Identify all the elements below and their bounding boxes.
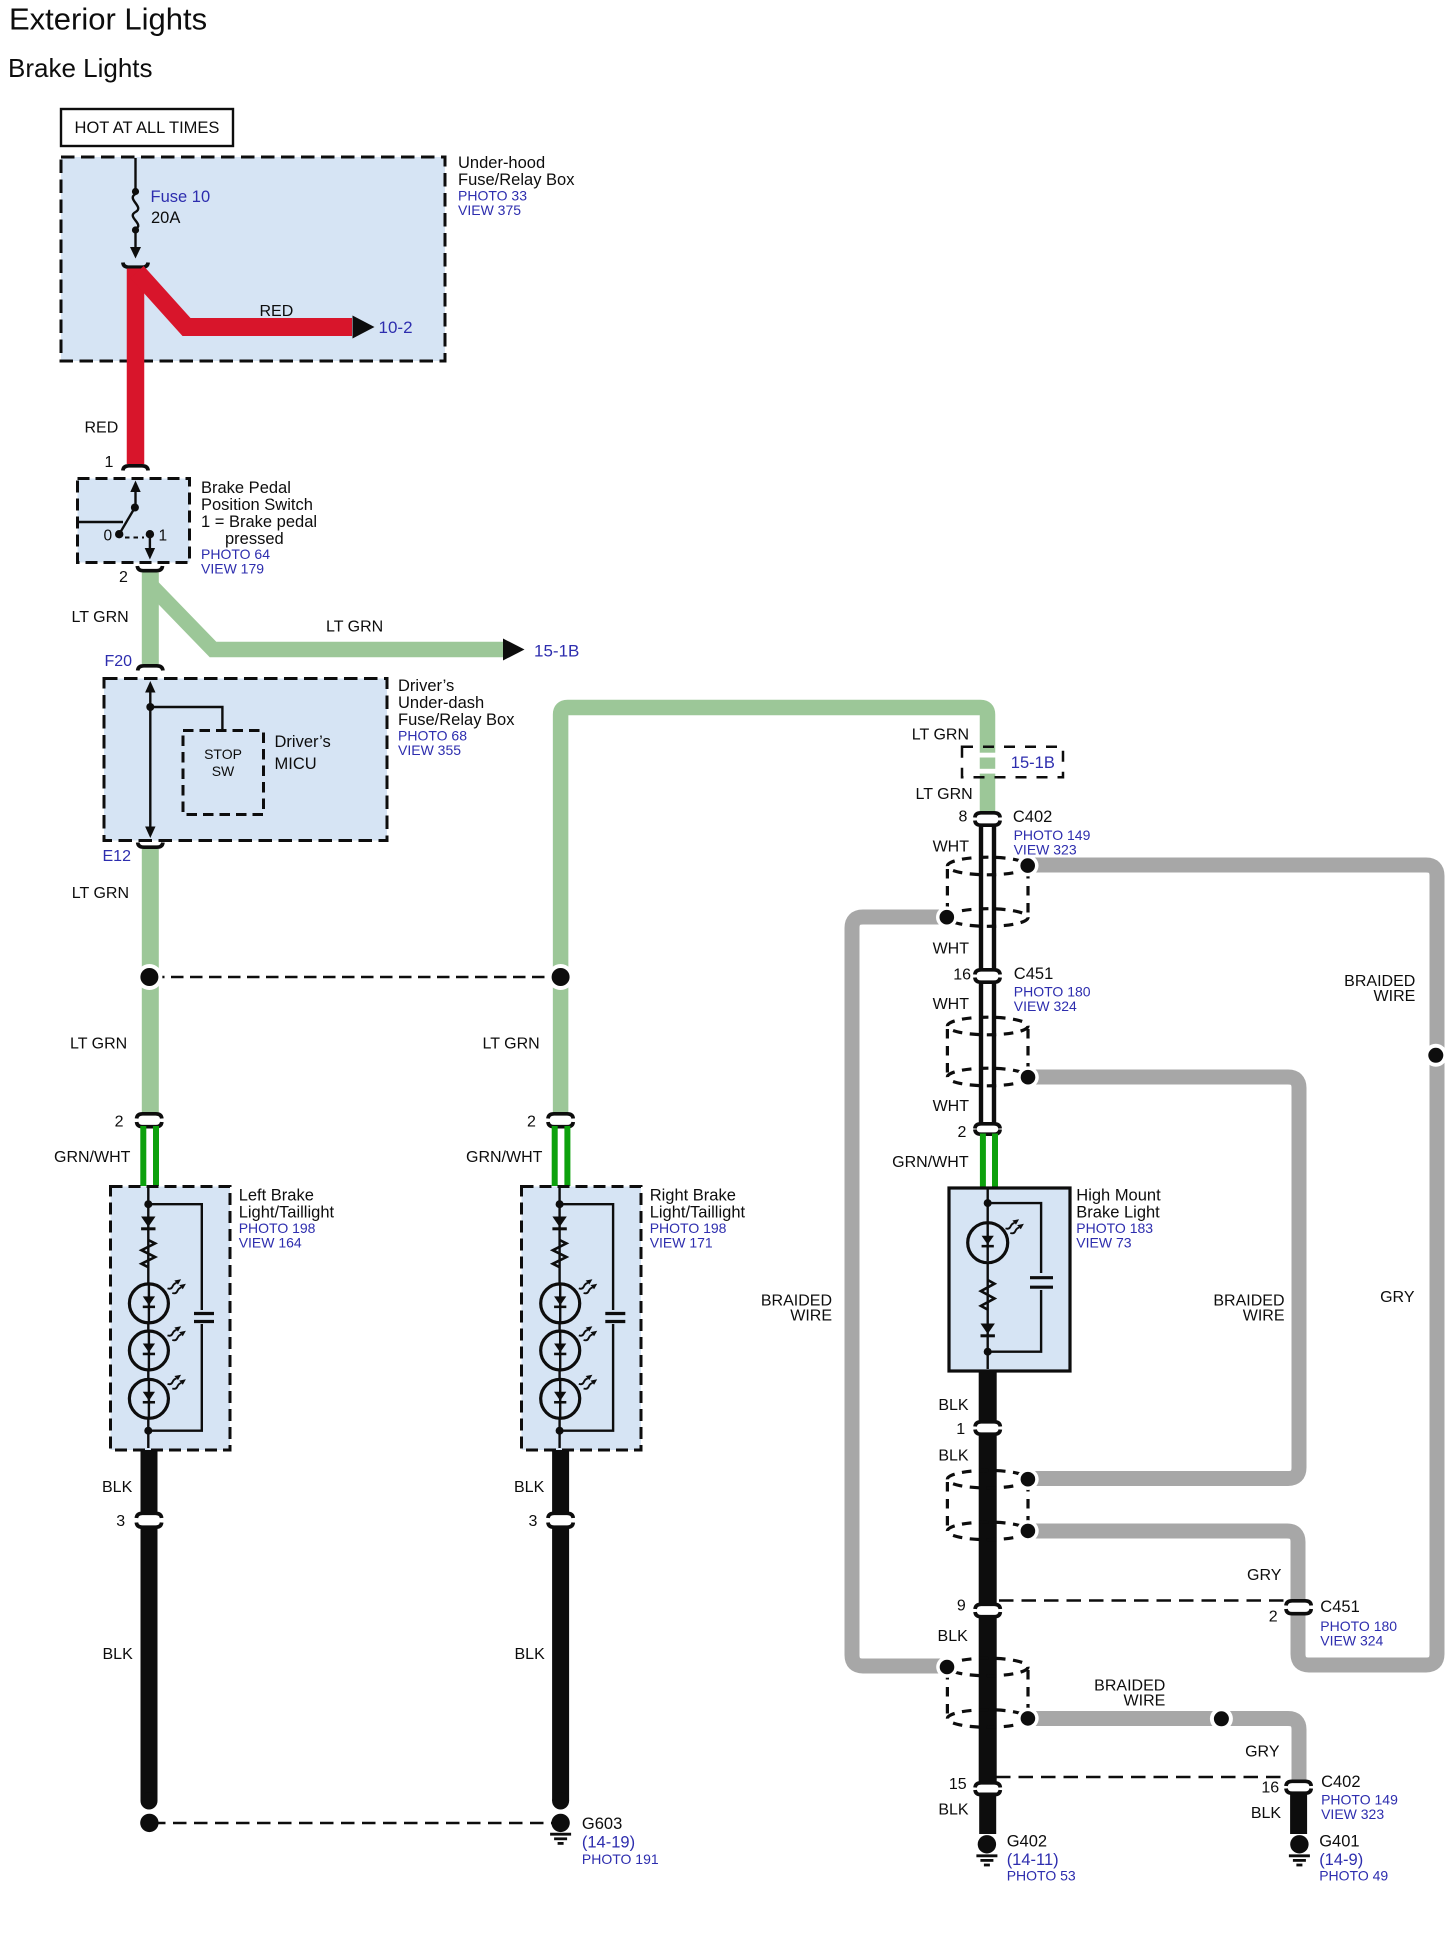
- svg-text:3: 3: [116, 1513, 125, 1530]
- svg-text:0: 0: [104, 528, 113, 545]
- svg-text:Brake Light: Brake Light: [1076, 1204, 1160, 1222]
- svg-text:15-1B: 15-1B: [534, 642, 579, 661]
- svg-text:GRY: GRY: [1380, 1289, 1415, 1306]
- capacitor branch: [988, 1203, 1041, 1352]
- junction node left: [136, 964, 162, 990]
- svg-text:BLK: BLK: [514, 1479, 545, 1496]
- svg-text:VIEW 355: VIEW 355: [398, 742, 461, 758]
- svg-text:SW: SW: [212, 763, 235, 779]
- STOP SW box: [183, 731, 264, 815]
- svg-text:LT GRN: LT GRN: [912, 727, 969, 744]
- svg-text:BLK: BLK: [938, 1802, 969, 1819]
- svg-text:HOT AT ALL TIMES: HOT AT ALL TIMES: [75, 119, 220, 137]
- svg-text:WHT: WHT: [933, 1098, 970, 1115]
- svg-text:Brake Pedal: Brake Pedal: [201, 479, 291, 497]
- svg-text:GRY: GRY: [1247, 1567, 1282, 1584]
- shield 4: [947, 1658, 1028, 1727]
- svg-text:2: 2: [115, 1114, 124, 1131]
- junction dot on far-right braided wire: [1424, 1044, 1447, 1067]
- svg-text:High Mount: High Mount: [1076, 1187, 1161, 1205]
- svg-text:LT GRN: LT GRN: [72, 885, 129, 902]
- wire: WHT (C451 to pin2): [979, 981, 983, 1126]
- svg-text:2: 2: [527, 1114, 536, 1131]
- wire: BLK below right lamp: [552, 1450, 569, 1515]
- switch common node: [131, 504, 139, 512]
- wire: GRN/WHT striped to right lamp: [552, 1126, 558, 1186]
- svg-text:C451: C451: [1014, 965, 1053, 983]
- svg-text:G401: G401: [1319, 1833, 1359, 1851]
- wire: GRN/WHT to high mount: [980, 1134, 986, 1189]
- driver's under-dash fuse/relay box: [104, 679, 387, 841]
- right brake light/taillight box: [522, 1187, 642, 1451]
- brake pedal position switch box: [78, 479, 190, 563]
- node top: [144, 1200, 152, 1208]
- diode: [141, 1217, 155, 1231]
- svg-text:RED: RED: [260, 303, 294, 320]
- wire: LT GRN E12 down to connector 2: [142, 849, 159, 1115]
- LED 3: [129, 1379, 168, 1418]
- svg-text:Fuse 10: Fuse 10: [151, 188, 211, 206]
- connector cup at red wire start: [123, 263, 148, 268]
- svg-text:WHT: WHT: [933, 941, 970, 958]
- wire: BLK through shield4: [979, 1615, 997, 1784]
- resistor: [142, 1240, 156, 1267]
- internal line with arrows: [145, 681, 155, 693]
- wire: BLK to ground G401: [1290, 1792, 1307, 1835]
- wire: BLK through shield3: [979, 1433, 997, 1606]
- node bottom: [144, 1427, 152, 1435]
- wire: LT GRN branch to 15-1B: [152, 586, 504, 650]
- svg-text:E12: E12: [103, 848, 132, 865]
- svg-text:(14-19): (14-19): [582, 1834, 635, 1852]
- svg-text:STOP: STOP: [204, 746, 242, 762]
- svg-text:VIEW 323: VIEW 323: [1321, 1806, 1384, 1822]
- braided wire: shield1 bottom-left, left and down to shield4 top-left: [852, 917, 942, 1666]
- shield2 drain dot: [1017, 1066, 1039, 1088]
- svg-text:C451: C451: [1320, 1598, 1359, 1616]
- LED: [968, 1223, 1008, 1263]
- braided wire: shield2 bottom-right to x1299 down, left to shield3 top-right: [1033, 1077, 1299, 1479]
- braided wire: shield1 top-right to far-right down to bottom U: [1033, 865, 1437, 1665]
- svg-text:15: 15: [949, 1776, 967, 1793]
- svg-text:2: 2: [1269, 1609, 1278, 1626]
- svg-text:16: 16: [1261, 1780, 1279, 1797]
- shield 1: [947, 857, 1028, 926]
- svg-text:Under-hood: Under-hood: [458, 154, 545, 172]
- braided wire: shield4 bottom-right right and down to C402: [1033, 1719, 1299, 1784]
- switch pin2 lead w/ down arrow: [149, 534, 151, 549]
- svg-text:Light/Taillight: Light/Taillight: [650, 1204, 746, 1222]
- svg-text:3: 3: [529, 1513, 538, 1530]
- svg-text:Driver’s: Driver’s: [275, 733, 331, 751]
- svg-text:WHT: WHT: [933, 996, 970, 1013]
- ground G402: [978, 1835, 996, 1853]
- ground G603: [551, 1814, 569, 1832]
- svg-text:BLK: BLK: [515, 1646, 546, 1663]
- svg-text:Driver’s: Driver’s: [398, 677, 454, 695]
- svg-text:Left Brake: Left Brake: [239, 1187, 314, 1205]
- svg-text:PHOTO 53: PHOTO 53: [1007, 1868, 1076, 1884]
- svg-text:BLK: BLK: [102, 1479, 133, 1496]
- internal main line: [987, 1189, 989, 1369]
- svg-text:1: 1: [956, 1421, 965, 1438]
- svg-text:VIEW 73: VIEW 73: [1076, 1235, 1131, 1251]
- svg-text:LT GRN: LT GRN: [72, 609, 129, 626]
- svg-text:PHOTO 191: PHOTO 191: [582, 1851, 659, 1867]
- 15-1B pass-through gaps in LT GRN: [978, 753, 997, 758]
- left brake light/taillight box: [111, 1187, 231, 1451]
- switch blade: [119, 508, 135, 535]
- shield 2: [947, 1017, 1028, 1086]
- under-hood fuse/relay box: [61, 157, 445, 361]
- wire: BLK to ground G402: [979, 1793, 996, 1835]
- wire: red feed vertical (fuse to brake switch): [127, 269, 145, 465]
- svg-text:WIRE: WIRE: [1124, 1693, 1166, 1710]
- svg-text:2: 2: [119, 569, 128, 586]
- svg-text:Under-dash: Under-dash: [398, 694, 484, 712]
- svg-text:MICU: MICU: [275, 755, 317, 773]
- svg-text:9: 9: [957, 1598, 966, 1615]
- node + branch to STOP SW: [146, 703, 154, 711]
- LED 2: [129, 1331, 168, 1370]
- svg-text:VIEW 171: VIEW 171: [650, 1235, 713, 1251]
- resistor: [981, 1280, 995, 1310]
- svg-text:10-2: 10-2: [379, 318, 413, 337]
- svg-text:VIEW 323: VIEW 323: [1014, 842, 1077, 858]
- svg-text:Right Brake: Right Brake: [650, 1187, 736, 1205]
- svg-text:(14-9): (14-9): [1319, 1851, 1363, 1869]
- svg-text:GRN/WHT: GRN/WHT: [892, 1154, 969, 1171]
- svg-text:1 = Brake pedal: 1 = Brake pedal: [201, 513, 317, 531]
- svg-text:VIEW 164: VIEW 164: [239, 1235, 302, 1251]
- svg-text:Fuse/Relay Box: Fuse/Relay Box: [398, 711, 515, 729]
- svg-text:LT GRN: LT GRN: [915, 786, 972, 803]
- svg-text:Brake Lights: Brake Lights: [8, 53, 153, 83]
- wire: LT GRN pin2 to F20: [142, 573, 159, 665]
- switch contact 0: [115, 530, 123, 538]
- svg-text:1: 1: [159, 528, 168, 545]
- wire: BLK to ground splice: [141, 1526, 158, 1802]
- svg-text:Fuse/Relay Box: Fuse/Relay Box: [458, 171, 575, 189]
- svg-text:Position Switch: Position Switch: [201, 496, 313, 514]
- diode: [981, 1324, 995, 1338]
- svg-text:16: 16: [953, 967, 971, 984]
- wire: WHT shielded (C402 to C451): [979, 824, 983, 972]
- svg-text:WIRE: WIRE: [790, 1308, 832, 1325]
- svg-text:C402: C402: [1013, 808, 1052, 826]
- high mount brake light box: [949, 1188, 1070, 1371]
- svg-text:BLK: BLK: [938, 1628, 969, 1645]
- svg-text:1: 1: [105, 454, 114, 471]
- wire: BLK below high mount: [979, 1371, 997, 1423]
- svg-text:BLK: BLK: [103, 1646, 134, 1663]
- svg-text:GRN/WHT: GRN/WHT: [466, 1149, 543, 1166]
- ground splice jumper (dashed): [152, 1822, 559, 1825]
- splice jumper (dashed) at y977: [152, 976, 559, 979]
- switch contact 1: [146, 530, 154, 538]
- LED 1: [129, 1284, 168, 1323]
- junction node: [140, 1814, 158, 1832]
- svg-text:LT GRN: LT GRN: [483, 1036, 540, 1053]
- svg-text:WIRE: WIRE: [1374, 988, 1416, 1005]
- connector cup at E12: [138, 843, 163, 848]
- capacitor branch: [148, 1204, 202, 1431]
- junction dot on shield4 braided wire: [1210, 1707, 1233, 1730]
- svg-text:15-1B: 15-1B: [1011, 754, 1055, 772]
- braided wire: shield3 bottom-right to x1298 down to C451: [1033, 1531, 1298, 1602]
- svg-text:BLK: BLK: [1251, 1805, 1282, 1822]
- wire: BLK below left lamp: [141, 1450, 158, 1515]
- shield 3: [947, 1470, 1028, 1539]
- svg-text:Light/Taillight: Light/Taillight: [239, 1204, 335, 1222]
- svg-text:Exterior Lights: Exterior Lights: [9, 2, 207, 37]
- common feed line from left: [79, 521, 123, 523]
- junction node right: [548, 964, 574, 990]
- svg-text:20A: 20A: [151, 209, 180, 227]
- svg-text:(14-11): (14-11): [1007, 1851, 1059, 1869]
- 15-1B pass-through dashed frame: [962, 747, 1063, 778]
- svg-text:2: 2: [957, 1124, 966, 1141]
- shield3 drain dots: [1017, 1468, 1039, 1490]
- svg-text:BLK: BLK: [938, 1448, 969, 1465]
- svg-text:GRN/WHT: GRN/WHT: [54, 1149, 131, 1166]
- svg-text:RED: RED: [85, 420, 119, 437]
- lamp internal main line: [147, 1188, 149, 1448]
- arrow to 10-2: [353, 316, 375, 339]
- wire: BLK to ground G603: [552, 1526, 569, 1802]
- svg-text:WHT: WHT: [933, 839, 970, 856]
- svg-text:F20: F20: [105, 653, 133, 670]
- svg-text:WIRE: WIRE: [1243, 1308, 1285, 1325]
- svg-text:G402: G402: [1007, 1833, 1047, 1851]
- svg-text:VIEW 375: VIEW 375: [458, 202, 521, 218]
- svg-text:VIEW 324: VIEW 324: [1320, 1633, 1383, 1649]
- label box HOT AT ALL TIMES: [61, 109, 233, 146]
- fuse F10 lead from box top: [134, 158, 136, 190]
- shield1 drain dots: [1017, 855, 1039, 877]
- connector cap at brake switch pin 1: [123, 466, 148, 471]
- switch pin1 arrow up: [130, 481, 140, 493]
- lamp internal main line: [558, 1188, 560, 1448]
- fuse 10 symbol: [132, 188, 139, 195]
- wire: GRN/WHT striped to left lamp: [140, 1126, 146, 1186]
- svg-text:VIEW 324: VIEW 324: [1014, 998, 1077, 1014]
- svg-text:8: 8: [958, 809, 967, 826]
- svg-text:LT GRN: LT GRN: [326, 619, 383, 636]
- svg-text:G603: G603: [582, 1815, 622, 1833]
- arrow to 15-1B: [503, 639, 525, 661]
- svg-text:LT GRN: LT GRN: [70, 1036, 127, 1053]
- dashed link 0-1: [125, 537, 144, 539]
- connector cap at F20: [138, 666, 163, 671]
- ground G401: [1290, 1835, 1308, 1853]
- connector cup at pin 2: [137, 566, 162, 571]
- svg-text:PHOTO 49: PHOTO 49: [1319, 1868, 1388, 1884]
- shield4 drain dots: [936, 1656, 958, 1678]
- svg-text:GRY: GRY: [1245, 1744, 1280, 1761]
- svg-text:BLK: BLK: [938, 1397, 969, 1414]
- svg-text:C402: C402: [1321, 1773, 1360, 1791]
- wire: red branch to 10-2: [137, 272, 352, 327]
- fuse output lead arrow: [134, 232, 136, 250]
- svg-text:VIEW 179: VIEW 179: [201, 561, 264, 577]
- wire: LT GRN middle column: [561, 708, 988, 1115]
